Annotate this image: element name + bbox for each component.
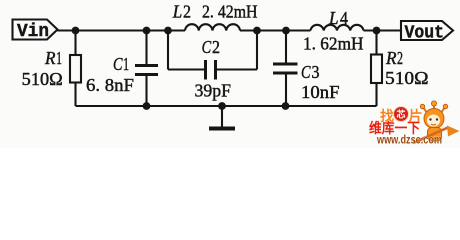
svg-text:www.dzsc.com: www.dzsc.com bbox=[376, 133, 442, 147]
svg-text:510Ω: 510Ω bbox=[385, 68, 429, 88]
svg-text:C: C bbox=[113, 54, 123, 74]
svg-text:2: 2 bbox=[183, 2, 191, 22]
svg-text:L: L bbox=[172, 2, 182, 22]
svg-text:3: 3 bbox=[312, 62, 320, 82]
svg-text:Vin: Vin bbox=[17, 21, 49, 42]
svg-text:2. 42mH: 2. 42mH bbox=[202, 2, 258, 22]
svg-text:2: 2 bbox=[397, 48, 403, 68]
svg-text:1. 62mH: 1. 62mH bbox=[303, 34, 364, 54]
svg-text:4: 4 bbox=[340, 8, 348, 28]
svg-text:L: L bbox=[328, 8, 338, 28]
svg-text:39pF: 39pF bbox=[195, 81, 232, 101]
svg-text:1: 1 bbox=[56, 48, 62, 68]
svg-text:C: C bbox=[301, 62, 311, 82]
svg-text:C: C bbox=[202, 37, 212, 57]
svg-text:1: 1 bbox=[123, 54, 129, 74]
svg-text:10nF: 10nF bbox=[301, 82, 340, 102]
svg-text:R: R bbox=[385, 48, 396, 68]
svg-text:510Ω: 510Ω bbox=[22, 69, 63, 89]
svg-text:Vout: Vout bbox=[405, 22, 445, 43]
svg-text:芯: 芯 bbox=[397, 109, 406, 120]
svg-text:R: R bbox=[44, 48, 55, 68]
svg-text:6. 8nF: 6. 8nF bbox=[86, 75, 134, 95]
svg-text:2: 2 bbox=[212, 37, 220, 57]
